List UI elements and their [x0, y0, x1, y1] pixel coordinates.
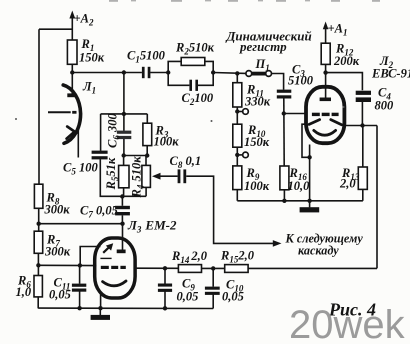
label C2 value [182, 91, 214, 107]
grid dash L1 [72, 111, 76, 114]
wire C9 bottom lead [164, 291, 166, 308]
wire ground stem right [309, 201, 311, 208]
svg-text:+А2: +А2 [74, 12, 94, 28]
label dynamic register [226, 29, 312, 55]
node C6 drop [122, 70, 126, 74]
wire C5 bottom stem [100, 159, 146, 196]
node R2C2 left [166, 70, 170, 74]
cathode L2 [314, 130, 336, 135]
wire R4 bottom lead [145, 188, 147, 197]
capacitor C8 [178, 169, 187, 183]
resistor R9 [233, 166, 242, 190]
capacitor C11 [72, 284, 86, 292]
wire C1 to node [150, 72, 168, 74]
wire C8 to next stage [186, 176, 273, 243]
svg-text:300к: 300к [44, 245, 71, 259]
svg-text:150к: 150к [244, 135, 270, 149]
resistor R14 [178, 265, 201, 273]
svg-text:R2510к: R2510к [175, 41, 215, 57]
wire bus to switch [213, 72, 246, 75]
svg-text:20wek: 20wek [289, 303, 406, 344]
wire anode L2 lead [325, 73, 327, 98]
svg-text:C2100: C2100 [182, 91, 214, 107]
wire R6 bottom [37, 297, 39, 309]
switch P1 blade [250, 72, 268, 76]
cathode L1 [67, 127, 75, 139]
triode L1 envelope [63, 85, 80, 143]
node C6-R5 [122, 153, 126, 157]
wire C7 top lead [121, 196, 123, 206]
wire cathode L3 down [100, 295, 102, 309]
label C11 value [49, 276, 71, 302]
wire +A2 feed [71, 16, 73, 40]
svg-text:каскаду: каскаду [298, 244, 339, 258]
label R12 value [333, 42, 360, 69]
diode plate left L2 [309, 120, 320, 125]
wire R11-R10 link [236, 107, 238, 124]
capacitor C6 [117, 131, 131, 139]
arrowhead to next stage [273, 240, 282, 247]
tube L3 envelope [95, 238, 135, 298]
node C4-R13 [360, 123, 364, 127]
resistor R13 [358, 167, 367, 189]
wire R5 top lead [123, 156, 125, 166]
deflector line L3 [100, 257, 111, 259]
wire R14-R15 link [202, 267, 225, 269]
svg-text:330к: 330к [244, 95, 271, 109]
resistor R15 [225, 265, 248, 273]
node mid bus [122, 112, 126, 116]
wire node drop to C6 [123, 73, 125, 114]
wire C7 bottom lead [121, 215, 123, 223]
wire ground rail [237, 200, 363, 202]
node ground stem [307, 199, 311, 203]
label to next stage [285, 232, 364, 258]
svg-text:Л1: Л1 [82, 80, 96, 96]
wire C4 to node [361, 102, 363, 126]
label C8 value [170, 154, 202, 170]
wire R2 branch right [205, 61, 213, 72]
label +A1 [328, 22, 348, 38]
wire R5-R4 top tie [123, 155, 147, 157]
svg-text:0,05: 0,05 [49, 288, 71, 302]
svg-text:200к: 200к [333, 54, 360, 68]
wire switch to C3 [271, 74, 283, 90]
svg-text:300к: 300к [44, 203, 71, 217]
wire R11 top lead [236, 73, 238, 82]
wire cathode L2 down [309, 145, 311, 201]
capacitor C1 [142, 67, 151, 78]
wire C9 top lead [164, 268, 166, 283]
wire C2 branch left [168, 73, 189, 86]
label L1 [82, 80, 96, 96]
node junction dots [36, 70, 364, 310]
svg-text:R142,0: R142,0 [171, 249, 208, 265]
svg-text:C6 300: C6 300 [106, 113, 122, 148]
label C7 value [80, 204, 118, 220]
cathode L3 [103, 281, 126, 286]
wire tap2 stub [237, 154, 242, 156]
arrow +A2 [69, 11, 75, 19]
wire node to C4 [326, 73, 363, 91]
wire diode plate bracket L2 [302, 124, 310, 157]
resistor R1 [67, 40, 77, 64]
wire R16 bottom lead [283, 190, 285, 201]
wire anode L1 lead [71, 73, 73, 95]
wire screen divider tap [39, 223, 123, 225]
label C6 value rotated [106, 113, 122, 148]
svg-text:Л3ЕМ-2: Л3ЕМ-2 [127, 218, 177, 235]
node R12 bottom [323, 70, 327, 74]
node C9 bottom [163, 306, 167, 310]
switch P1 left contact [246, 71, 252, 77]
potentiometer R4 [142, 165, 151, 187]
svg-text:10,0: 10,0 [288, 179, 311, 193]
wire C5 top stem [100, 114, 102, 151]
wire tap1 stub [237, 111, 242, 113]
wire R9 bottom lead [236, 190, 238, 201]
anode plate L2 [320, 98, 331, 102]
wire C2 branch right [198, 73, 213, 86]
switch P1 right contact [266, 71, 272, 77]
ground bar L3 [91, 315, 110, 320]
svg-text:регистр: регистр [239, 39, 287, 54]
wire +A1 feed [325, 28, 327, 44]
wire right rail [376, 126, 378, 269]
wire R3 top lead [146, 114, 148, 123]
resistor R8 [34, 184, 43, 208]
wire R12 bottom lead [325, 64, 327, 72]
resistor R16 [280, 166, 289, 190]
label R8 value [44, 191, 71, 217]
svg-text:R551к: R551к [104, 157, 120, 190]
node R14-R15 [211, 266, 215, 270]
label L2 type [371, 54, 410, 81]
arrow +A1 [323, 22, 329, 30]
label R1 value [79, 37, 105, 65]
capacitor C3 [277, 90, 292, 99]
svg-text:+А1: +А1 [328, 22, 348, 38]
svg-text:150к: 150к [79, 51, 105, 65]
ground bar right [300, 207, 320, 212]
label C10 value [222, 278, 244, 304]
wire cathode bus L3 [38, 264, 96, 266]
wire R3 to R4 [146, 146, 148, 156]
resistor R3 [143, 123, 152, 145]
wire R7-R6 link [37, 253, 39, 275]
label R3 value [154, 124, 180, 149]
node R1 bottom [70, 70, 74, 74]
node cathode L3 ground [98, 306, 102, 310]
anode plate L3 [117, 250, 126, 254]
label L3 type [127, 218, 177, 235]
node P1 left [235, 71, 239, 75]
wire bottom rail [38, 307, 213, 309]
svg-text:0,05: 0,05 [177, 290, 199, 304]
capacitor C10 [205, 287, 220, 295]
wire C10 top lead [212, 268, 214, 286]
label C5 value [63, 161, 98, 177]
wire R8-R7 link [38, 208, 40, 231]
arrowhead wiper R4 [152, 173, 161, 180]
svg-text:C7 0,05: C7 0,05 [80, 204, 118, 220]
wire C6 top lead [123, 114, 125, 131]
label R13 value [339, 166, 360, 191]
label R16 value [288, 166, 311, 193]
svg-text:C8 0,1: C8 0,1 [170, 154, 202, 170]
capacitor C9 [158, 284, 172, 292]
wire grid L3 to R14 [134, 267, 178, 269]
grid dashes L3 [101, 266, 126, 269]
label R6 value [16, 274, 32, 300]
node R5 bottom [120, 194, 124, 198]
wire R10-R9 link [236, 147, 238, 166]
svg-text:C5 100: C5 100 [63, 161, 98, 177]
label C3 value [288, 63, 314, 88]
svg-text:ЕВС-91: ЕВС-91 [371, 67, 410, 81]
node C9 top [163, 266, 167, 270]
node C11 bottom [77, 306, 81, 310]
svg-text:5100: 5100 [288, 74, 314, 88]
svg-text:R4 510к: R4 510к [130, 156, 146, 199]
wire R13 bottom lead [362, 189, 364, 200]
label R5 value rotated [104, 157, 120, 190]
svg-text:R152,0: R152,0 [220, 249, 255, 265]
wire ground stem L3 [99, 308, 101, 315]
grid dashes L2 [312, 113, 339, 116]
node R7-R6 [36, 263, 40, 267]
capacitor C4 [356, 91, 371, 102]
resistor R2 [181, 58, 205, 66]
capacitor C5 [92, 151, 108, 160]
wire grid L1 [48, 111, 71, 113]
resistor R11 [233, 83, 242, 107]
node C11 top [78, 263, 82, 267]
node R3-R4 [145, 153, 149, 157]
wire C11 top lead [79, 265, 81, 283]
target arrow L3 [103, 243, 113, 253]
wire R1 bottom lead [71, 64, 73, 72]
wire R2 branch left [168, 61, 181, 72]
capacitor C2 [189, 80, 198, 91]
faint page-edge text remnants [109, 0, 380, 2]
resistor R7 [34, 231, 43, 253]
node R10 tap [235, 153, 239, 157]
wire C10 bottom lead [212, 294, 214, 308]
svg-text:1,0: 1,0 [16, 285, 32, 299]
node R2C2 right [211, 70, 215, 74]
node R11 tap [235, 109, 239, 113]
wire C3 to R16 [283, 98, 285, 166]
label figure caption [328, 300, 376, 320]
wire L3 target branch [80, 247, 100, 266]
wire grid L2 [284, 113, 307, 115]
svg-text:800: 800 [375, 99, 395, 113]
tap contact 2 [243, 152, 249, 158]
label R4 value rotated [130, 156, 146, 199]
capacitor C7 [115, 206, 130, 216]
label +A2 [74, 12, 94, 28]
node R16 ground [282, 199, 286, 203]
resistor R12 [321, 43, 330, 64]
wire cathode L1 lead [77, 125, 79, 158]
label R9 value [244, 166, 270, 193]
wire left rail [38, 29, 40, 184]
label R15 value [220, 249, 255, 265]
wire L2 right to rail [344, 125, 377, 127]
wire R5 bottom lead [123, 188, 125, 197]
tap contact 1 [243, 109, 249, 115]
resistor R5 [119, 165, 129, 187]
resistor R10 [233, 124, 242, 147]
svg-text:П1: П1 [255, 57, 270, 73]
wire C6 bottom lead [123, 139, 125, 156]
label C9 value [177, 277, 199, 304]
diode plate right L2 [331, 120, 342, 125]
label R2 value [175, 41, 215, 57]
label C1 value [127, 49, 166, 65]
wire main top bus [72, 72, 142, 74]
label R7 value [44, 233, 71, 259]
wire bottom return to R15 [248, 267, 377, 269]
label P1 [255, 57, 270, 73]
label R10 value [244, 123, 270, 149]
wire C11 bottom lead [79, 291, 81, 308]
resistor R6 [34, 276, 42, 297]
wire mid bus [101, 113, 148, 115]
wire R13 top lead [362, 126, 364, 168]
watermark 20wek [289, 303, 406, 344]
wire C8 wiper line [159, 175, 178, 177]
svg-text:100к: 100к [244, 179, 270, 193]
label R11 value [244, 83, 271, 109]
svg-text:C15100: C15100 [127, 49, 166, 65]
node C7 bottom [120, 222, 124, 226]
tube L2 envelope [306, 87, 344, 143]
anode plate L1 [67, 93, 76, 97]
scan speck [15, 106, 345, 122]
wire anode L3 lead [122, 224, 124, 250]
wire top-left tee [39, 28, 72, 30]
svg-text:100к: 100к [154, 135, 180, 149]
label C4 value [375, 86, 395, 113]
node grid L2 [282, 111, 286, 115]
label R14 value [171, 249, 208, 265]
svg-text:2,0: 2,0 [339, 177, 356, 191]
node R8-R7 [37, 222, 41, 226]
node diode bracket [307, 155, 311, 159]
svg-text:0,05: 0,05 [222, 290, 244, 304]
